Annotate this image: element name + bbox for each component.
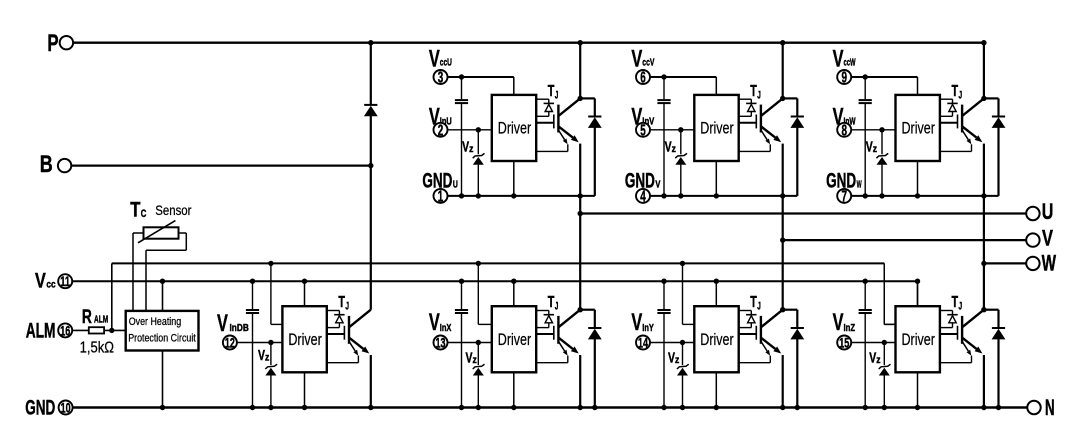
diode TJ U (temperature sense) bbox=[544, 102, 554, 104]
capacitor CX bbox=[461, 281, 463, 309]
wire OHP Vcc bbox=[162, 281, 164, 311]
wire sense-emitter return DB bbox=[357, 356, 359, 363]
wire ALM tap to driver DB bbox=[270, 263, 272, 324]
wire gate lead W bbox=[940, 122, 958, 124]
pin 2 (VinU) bbox=[434, 123, 448, 137]
thermistor TC sensor bbox=[144, 227, 179, 238]
wire TJ anode lead X bbox=[536, 310, 549, 312]
capacitor CY bbox=[663, 281, 665, 309]
diode TJ X (temperature sense) bbox=[544, 314, 554, 316]
wire gate lead Y bbox=[739, 333, 757, 335]
wire ALM tap to driver Z bbox=[883, 263, 885, 324]
pin 1 (GNDU) bbox=[434, 189, 448, 203]
svg-text:3: 3 bbox=[438, 70, 444, 87]
svg-text:J: J bbox=[959, 301, 963, 313]
svg-text:J: J bbox=[959, 89, 963, 101]
node collector Y bbox=[780, 307, 785, 312]
IGBT QX bbox=[553, 326, 555, 340]
pin 16 (ALM) bbox=[58, 323, 72, 337]
node VinU/Vz bbox=[476, 127, 481, 132]
wire sense-emitter return Y bbox=[769, 356, 771, 363]
wire VccV to driver bbox=[651, 76, 717, 78]
wire TJ cathode lead W bbox=[952, 112, 954, 117]
wire driver Y Vcc bbox=[715, 281, 717, 306]
zener Vz Z bbox=[883, 343, 885, 366]
zener Vz Y bbox=[682, 343, 684, 366]
wire U rail down bbox=[579, 196, 581, 310]
wire gate lead DB bbox=[327, 333, 345, 335]
pin 15 (VinZ) bbox=[837, 336, 851, 350]
wire gate lead V bbox=[739, 122, 757, 124]
wire emitter W down bbox=[983, 144, 985, 196]
capacitor CZ bbox=[864, 281, 866, 309]
svg-text:V: V bbox=[1042, 226, 1053, 251]
wire ALM rail drop to driver Z bbox=[883, 263, 885, 324]
wire driver Z Vcc bbox=[917, 281, 919, 306]
wire emitter V down bbox=[782, 144, 784, 196]
svg-text:Driver: Driver bbox=[288, 330, 322, 349]
freewheel diode DW bbox=[984, 97, 999, 99]
node collector W bbox=[981, 96, 986, 101]
wire TJ cathode lead V bbox=[750, 112, 752, 117]
wire driver X Vcc bbox=[513, 281, 515, 306]
wire sense-emitter return U bbox=[567, 144, 569, 151]
svg-text:V: V bbox=[462, 139, 469, 156]
wire emitter DB to N bbox=[370, 355, 372, 408]
svg-text:5: 5 bbox=[640, 122, 646, 139]
wire OHP gnd bbox=[162, 351, 164, 408]
wire sense-emitter return W bbox=[971, 144, 973, 151]
wire TJ anode lead DB bbox=[327, 310, 340, 312]
IGBT QDB bbox=[343, 326, 345, 340]
pin 12 (VinDB) bbox=[223, 336, 237, 350]
node VinDB/Vz bbox=[268, 340, 273, 345]
wire VinY to driver bbox=[651, 342, 695, 344]
svg-text:V: V bbox=[866, 139, 873, 156]
driver UV bbox=[694, 95, 738, 161]
terminal N bbox=[1027, 401, 1040, 414]
wire ALM to ALM rail bbox=[111, 263, 113, 330]
svg-text:2: 2 bbox=[438, 122, 444, 139]
wire driver DB gnd bbox=[304, 372, 306, 407]
svg-text:J: J bbox=[345, 301, 349, 313]
svg-text:ALM: ALM bbox=[94, 313, 108, 325]
diode TJ W (temperature sense) bbox=[947, 102, 957, 104]
svg-text:P: P bbox=[47, 30, 58, 57]
wire driver DB Vcc bbox=[304, 281, 306, 306]
node VccW/cap bbox=[863, 74, 868, 79]
wire gate lead Z bbox=[940, 333, 958, 335]
svg-text:InX: InX bbox=[440, 323, 452, 334]
svg-text:11: 11 bbox=[60, 273, 70, 289]
svg-text:9: 9 bbox=[841, 70, 847, 87]
brake cell: capacitor C_DB bbox=[252, 281, 254, 309]
pin 11 (Vcc) bbox=[58, 274, 72, 288]
svg-text:4: 4 bbox=[640, 188, 646, 205]
diode TJ Y (temperature sense) bbox=[746, 314, 756, 316]
IGBT QW bbox=[957, 115, 959, 129]
IGBT QY bbox=[755, 326, 757, 340]
svg-text:Driver: Driver bbox=[902, 330, 936, 349]
terminal U bbox=[580, 212, 1026, 214]
wire GNDW line bbox=[852, 195, 999, 197]
node ALM junction bbox=[109, 328, 114, 333]
wire ALM rail bbox=[112, 262, 885, 264]
svg-text:J: J bbox=[757, 89, 761, 101]
svg-text:z: z bbox=[672, 144, 676, 155]
svg-text:InDB: InDB bbox=[230, 323, 249, 334]
wire sense-emitter return V bbox=[769, 144, 771, 151]
diode TJ DB (temperature sense) bbox=[334, 314, 344, 316]
IGBT QZ bbox=[957, 326, 959, 340]
wire gate lead U bbox=[536, 122, 554, 124]
node VinY/Vz bbox=[680, 340, 685, 345]
svg-text:Driver: Driver bbox=[498, 330, 532, 349]
IGBT QV bbox=[755, 115, 757, 129]
svg-text:1: 1 bbox=[438, 188, 444, 205]
svg-text:14: 14 bbox=[638, 334, 648, 350]
wire B line bbox=[71, 165, 370, 167]
wire emitter U down bbox=[579, 144, 581, 196]
wire ALM tap to driver X bbox=[477, 263, 479, 324]
zener Vz V bbox=[680, 130, 682, 155]
freewheel diode DZ bbox=[984, 309, 999, 311]
wire TJ anode lead U bbox=[536, 98, 549, 100]
svg-text:z: z bbox=[265, 352, 269, 363]
pin 3 (VccU) bbox=[434, 70, 448, 84]
svg-text:GND: GND bbox=[25, 397, 55, 420]
node VinV/Vz bbox=[678, 127, 683, 132]
terminal W bbox=[984, 262, 1027, 264]
wire TJ anode lead V bbox=[739, 98, 752, 100]
svg-text:ALM: ALM bbox=[26, 320, 56, 343]
wire TJ anode lead W bbox=[940, 98, 953, 100]
wire VinZ to driver bbox=[852, 342, 896, 344]
driver UW bbox=[896, 95, 940, 161]
pin 7 (GNDW) bbox=[837, 189, 851, 203]
wire VinU to driver bbox=[448, 129, 492, 131]
svg-text:cc: cc bbox=[46, 279, 55, 291]
svg-text:8: 8 bbox=[841, 122, 847, 139]
node VccV/cap bbox=[661, 74, 666, 79]
wire VinW to driver bbox=[852, 129, 896, 131]
node VinW/Vz bbox=[879, 127, 884, 132]
wire VinV to driver bbox=[651, 129, 695, 131]
svg-text:ccW: ccW bbox=[844, 57, 856, 68]
wire collector rail V from P bbox=[782, 43, 784, 99]
wire driver X gnd bbox=[513, 372, 515, 407]
wire emitter Y to N bbox=[782, 355, 784, 408]
wire ALM tap to driver Y bbox=[682, 263, 684, 324]
wire sense-emitter return X bbox=[567, 356, 569, 363]
svg-text:13: 13 bbox=[436, 334, 446, 350]
svg-text:W: W bbox=[1042, 250, 1057, 275]
svg-text:6: 6 bbox=[640, 70, 646, 87]
wire TJ anode lead Z bbox=[940, 310, 953, 312]
svg-text:z: z bbox=[675, 355, 679, 366]
driver UU bbox=[492, 95, 536, 161]
svg-text:J: J bbox=[555, 89, 559, 101]
svg-text:Sensor: Sensor bbox=[155, 202, 192, 218]
pin 13 (VinX) bbox=[434, 336, 448, 350]
zener Vz W bbox=[881, 130, 883, 155]
svg-text:W: W bbox=[857, 180, 862, 191]
svg-text:T: T bbox=[548, 294, 555, 311]
svg-text:12: 12 bbox=[225, 334, 235, 350]
svg-text:10: 10 bbox=[61, 399, 71, 415]
svg-text:7: 7 bbox=[841, 188, 847, 205]
wire VinX to driver bbox=[448, 342, 492, 344]
capacitor CU bbox=[461, 77, 463, 99]
wire VccU to driver bbox=[448, 76, 514, 78]
svg-text:15: 15 bbox=[839, 334, 849, 350]
svg-text:T: T bbox=[338, 294, 345, 311]
svg-text:1,5kΩ: 1,5kΩ bbox=[80, 339, 114, 356]
IGBT QU bbox=[553, 115, 555, 129]
svg-text:16: 16 bbox=[60, 322, 70, 338]
node collector X bbox=[578, 307, 583, 312]
svg-text:V: V bbox=[631, 309, 642, 336]
wire V rail down bbox=[782, 196, 784, 310]
wire TJ cathode lead X bbox=[548, 323, 550, 328]
svg-text:U: U bbox=[453, 180, 458, 191]
wire driver Y gnd bbox=[715, 372, 717, 407]
wire emitter X to N bbox=[579, 355, 581, 408]
svg-text:InY: InY bbox=[642, 323, 654, 334]
node VinZ/Vz bbox=[882, 340, 887, 345]
svg-text:ccV: ccV bbox=[642, 57, 654, 68]
svg-text:V: V bbox=[833, 309, 844, 336]
zener Vz X bbox=[477, 343, 479, 366]
svg-text:R: R bbox=[82, 307, 92, 328]
pin 4 (GNDV) bbox=[636, 189, 650, 203]
svg-text:V: V bbox=[258, 347, 265, 364]
zener Vz DB bbox=[270, 343, 272, 366]
svg-text:T: T bbox=[548, 83, 555, 100]
svg-text:Driver: Driver bbox=[700, 119, 734, 138]
svg-text:Over Heating: Over Heating bbox=[129, 316, 182, 328]
driver UZ bbox=[896, 306, 940, 372]
svg-text:Driver: Driver bbox=[700, 330, 734, 349]
svg-text:U: U bbox=[1042, 199, 1054, 224]
diode brake (B to P) bbox=[370, 43, 372, 105]
node VinX/Vz bbox=[476, 340, 481, 345]
svg-text:T: T bbox=[130, 198, 140, 221]
svg-text:T: T bbox=[952, 83, 959, 100]
svg-text:InZ: InZ bbox=[844, 323, 856, 334]
wire emitter Z to N bbox=[983, 355, 985, 408]
wire VccW to driver bbox=[852, 76, 918, 78]
wire driver Z gnd bbox=[917, 372, 919, 407]
wire P rail bbox=[73, 42, 984, 44]
wire driver V gnd bbox=[715, 161, 717, 196]
pin 8 (VinW) bbox=[837, 123, 851, 137]
wire GNDV line bbox=[651, 195, 798, 197]
svg-text:V: V bbox=[655, 180, 660, 191]
wire sensor left leg bbox=[133, 232, 144, 234]
wire collector rail U from P bbox=[579, 43, 581, 99]
svg-text:Protection Circuit: Protection Circuit bbox=[128, 333, 196, 345]
pin 10 (GND) bbox=[59, 401, 73, 415]
svg-text:z: z bbox=[473, 355, 477, 366]
wire N rail bbox=[73, 406, 1027, 408]
driver UX bbox=[492, 306, 536, 372]
wire TJ cathode lead U bbox=[548, 112, 550, 117]
svg-text:V: V bbox=[217, 310, 228, 337]
svg-text:T: T bbox=[952, 294, 959, 311]
capacitor CW bbox=[864, 77, 866, 99]
freewheel diode DU bbox=[580, 97, 595, 99]
diode TJ Z (temperature sense) bbox=[947, 314, 957, 316]
svg-text:z: z bbox=[876, 355, 880, 366]
wire TJ cathode lead Y bbox=[750, 323, 752, 328]
wire W rail down bbox=[983, 196, 985, 310]
svg-text:V: V bbox=[668, 349, 675, 366]
svg-text:Driver: Driver bbox=[498, 119, 532, 138]
diode TJ V (temperature sense) bbox=[746, 102, 756, 104]
svg-text:C: C bbox=[141, 208, 147, 220]
terminal V bbox=[783, 239, 1027, 241]
svg-text:J: J bbox=[555, 301, 559, 313]
node collector V bbox=[780, 96, 785, 101]
node collector Z bbox=[981, 307, 986, 312]
wire driver U gnd bbox=[513, 161, 515, 196]
svg-text:J: J bbox=[757, 301, 761, 313]
svg-text:V: V bbox=[869, 349, 876, 366]
wire VinDB to driver bbox=[238, 342, 283, 344]
node collector U bbox=[578, 96, 583, 101]
svg-text:B: B bbox=[40, 151, 53, 178]
wire gate lead X bbox=[536, 333, 554, 335]
driver UY bbox=[694, 306, 738, 372]
svg-text:N: N bbox=[1045, 395, 1055, 420]
pin 6 (VccV) bbox=[636, 70, 650, 84]
over heating protection circuit bbox=[126, 311, 199, 351]
freewheel diode DY bbox=[783, 309, 798, 311]
svg-text:Driver: Driver bbox=[902, 119, 936, 138]
wire driver W gnd bbox=[917, 161, 919, 196]
wire TJ anode lead Y bbox=[739, 310, 752, 312]
wire collector rail W from P bbox=[983, 43, 985, 99]
freewheel diode DV bbox=[783, 97, 798, 99]
svg-text:V: V bbox=[665, 139, 672, 156]
wire TJ cathode lead Z bbox=[952, 323, 954, 328]
pin 14 (VinY) bbox=[636, 336, 650, 350]
capacitor CV bbox=[663, 77, 665, 99]
zener Vz U bbox=[477, 130, 479, 155]
pin 5 (VinV) bbox=[636, 123, 650, 137]
svg-text:V: V bbox=[35, 270, 46, 293]
driver UDB bbox=[282, 306, 326, 372]
freewheel diode DX bbox=[580, 309, 595, 311]
svg-text:z: z bbox=[873, 144, 877, 155]
wire Vcc rail bbox=[73, 280, 918, 282]
wire sense-emitter return Z bbox=[971, 356, 973, 363]
wire TJ cathode lead DB bbox=[338, 323, 340, 328]
svg-text:T: T bbox=[750, 294, 757, 311]
svg-text:V: V bbox=[429, 309, 440, 336]
wire GNDU line bbox=[448, 195, 595, 197]
svg-text:z: z bbox=[469, 144, 473, 155]
wire sensor right leg bbox=[179, 232, 187, 234]
svg-text:V: V bbox=[466, 349, 473, 366]
pin 9 (VccW) bbox=[837, 70, 851, 84]
svg-text:ccU: ccU bbox=[440, 57, 452, 68]
resistor R_ALM 1,5kOhm bbox=[73, 329, 89, 331]
node VccU/cap bbox=[459, 74, 464, 79]
svg-text:T: T bbox=[750, 83, 757, 100]
wire Vcc rail drop to driver Z bbox=[917, 281, 919, 306]
